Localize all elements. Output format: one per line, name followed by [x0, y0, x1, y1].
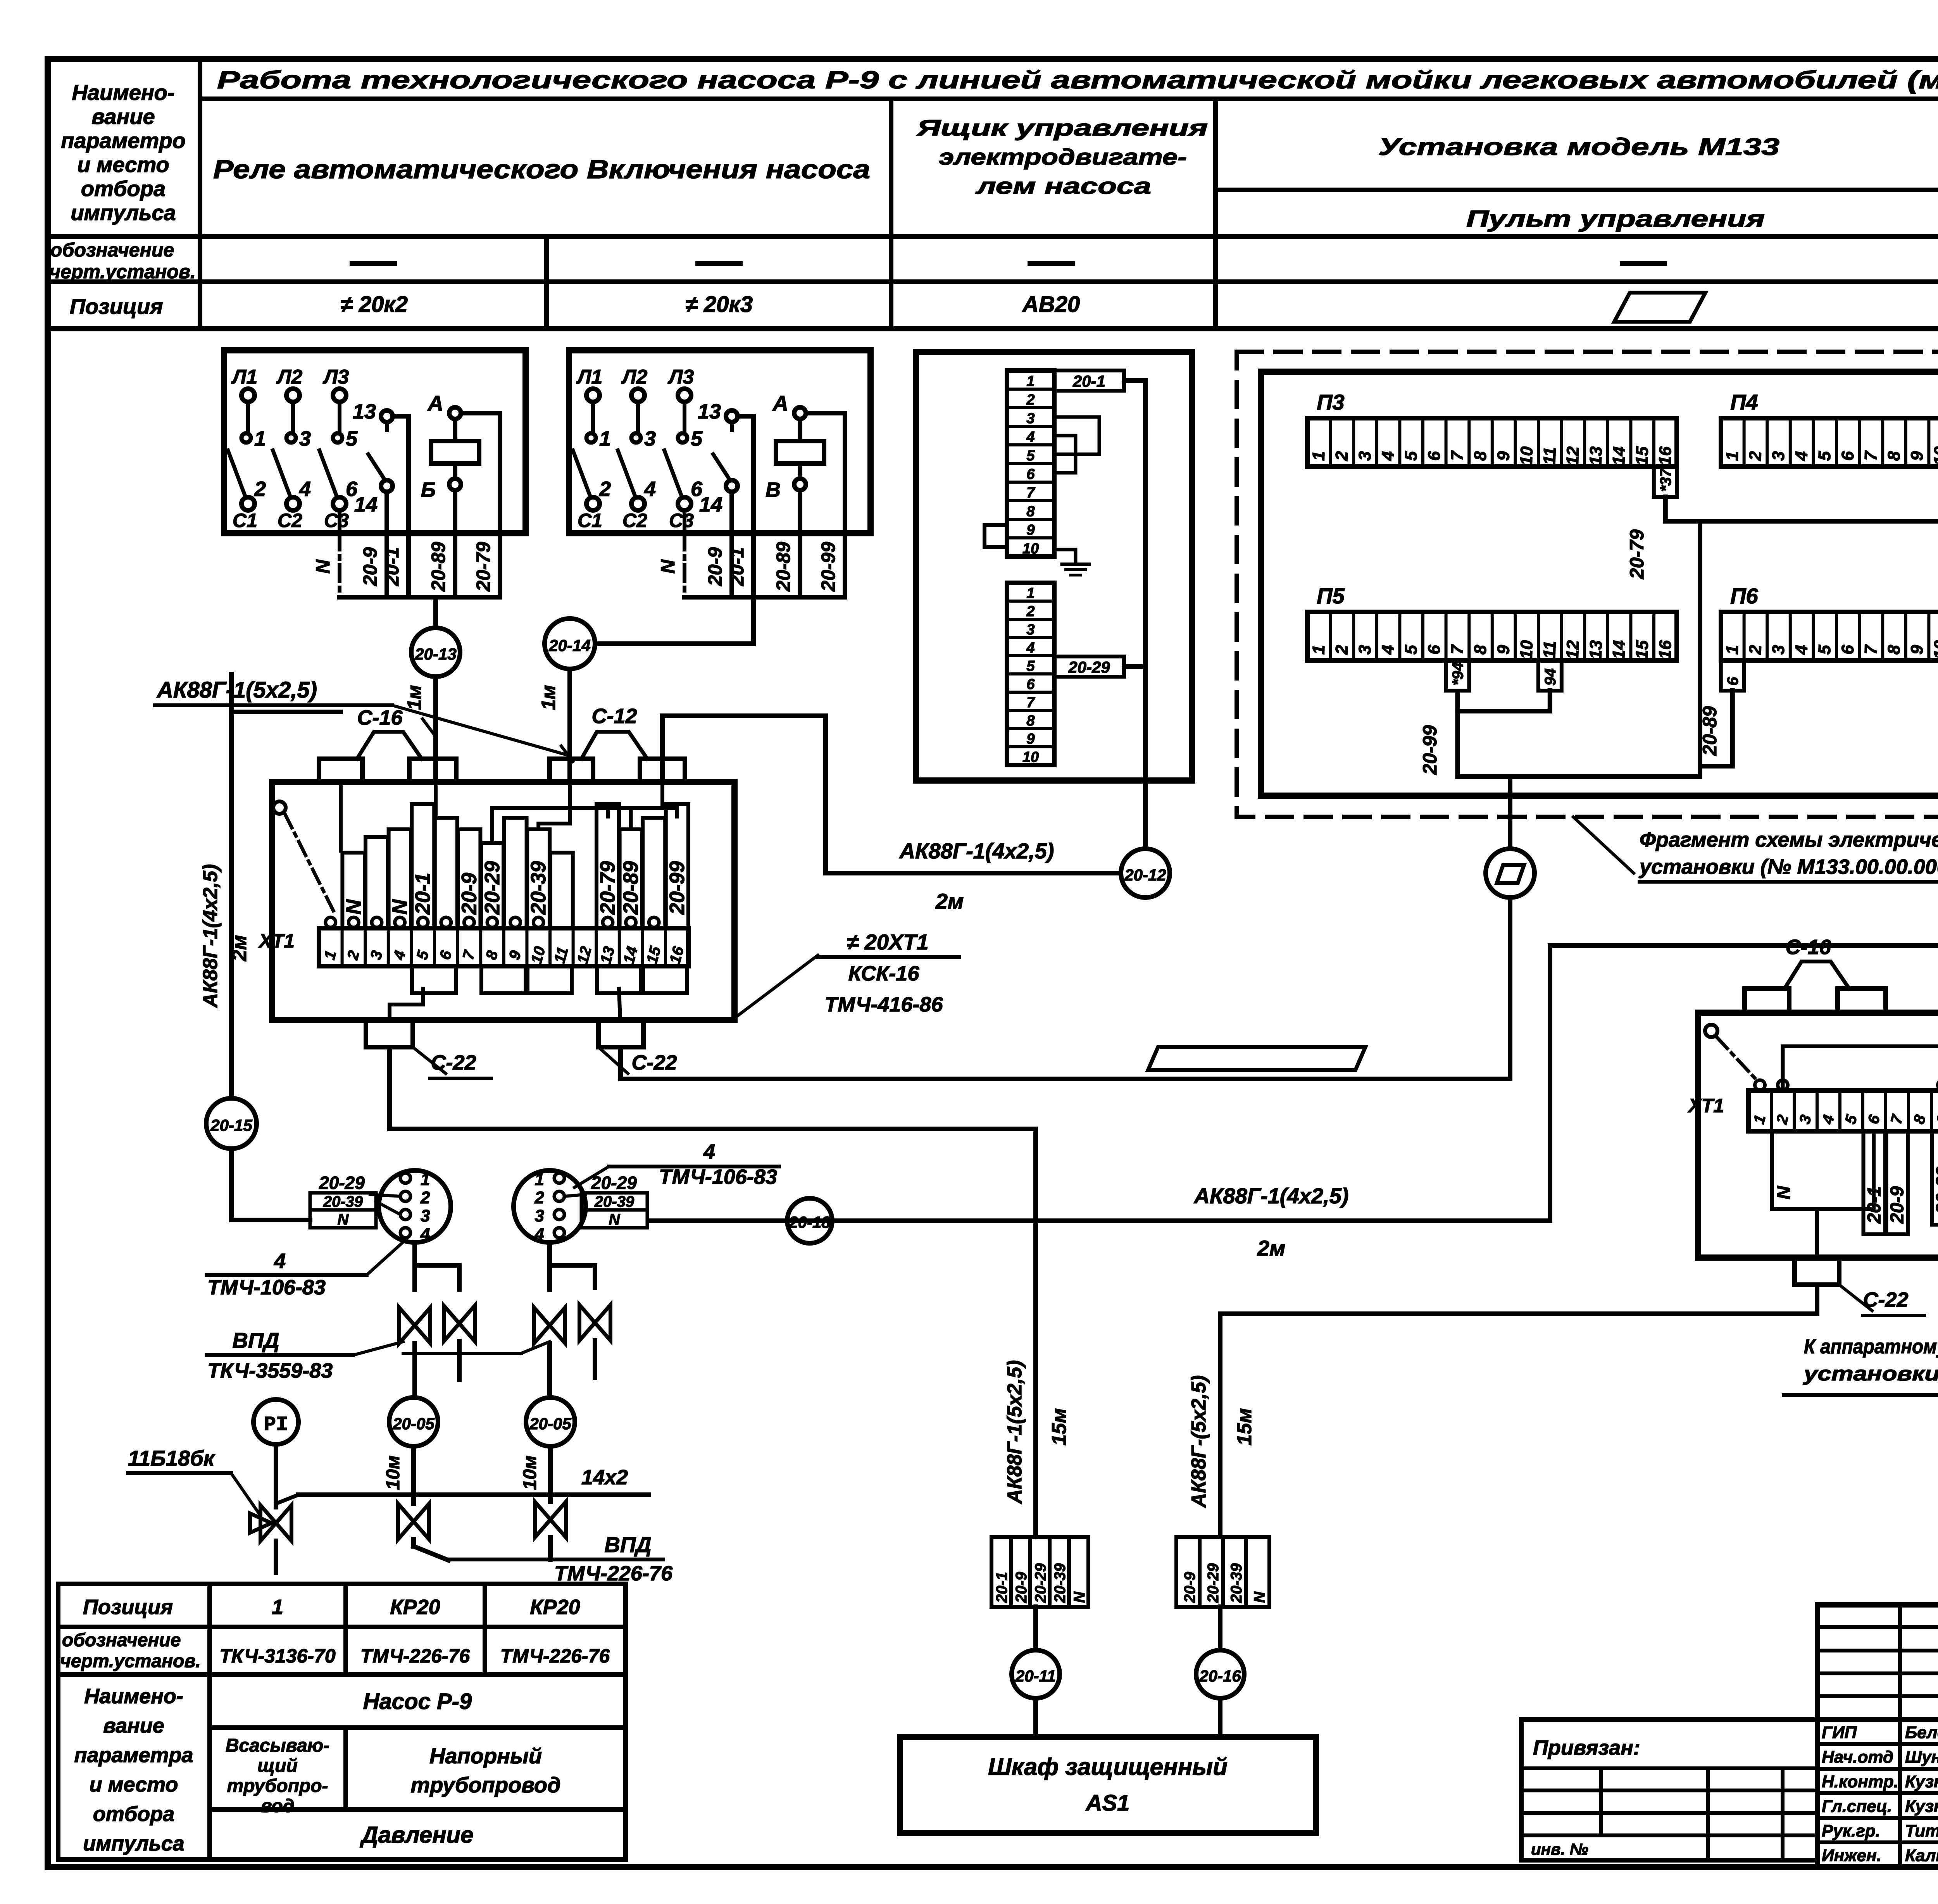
- wire 20-99 P5 jumper: [1457, 690, 1550, 711]
- svg-text:4: 4: [644, 477, 656, 501]
- svg-text:14: 14: [354, 493, 378, 516]
- svg-text:1: 1: [272, 1596, 283, 1619]
- svg-text:Ящик управления: Ящик управления: [916, 115, 1208, 141]
- svg-text:8: 8: [483, 948, 501, 961]
- svg-text:6: 6: [1724, 677, 1741, 686]
- svg-text:9: 9: [506, 948, 524, 961]
- svg-text:1: 1: [321, 949, 340, 961]
- svg-text:20-18: 20-18: [788, 1213, 831, 1231]
- svg-text:N: N: [312, 559, 334, 574]
- wire N dash-dot: [338, 510, 341, 533]
- svg-text:Шунский: Шунский: [1905, 1748, 1938, 1767]
- wire AK88G-1(4x2,5) to 20-15: [229, 674, 234, 1098]
- svg-text:20-9: 20-9: [457, 873, 481, 915]
- svg-text:11: 11: [1540, 447, 1560, 465]
- svg-text:5: 5: [1026, 448, 1035, 464]
- svg-text:9: 9: [1907, 451, 1927, 461]
- title block columns: [1898, 1605, 1902, 1867]
- svg-text:PI: PI: [264, 1413, 288, 1436]
- lower 10-terminal strip: [1007, 583, 1054, 765]
- svg-text:16: 16: [1655, 640, 1675, 660]
- svg-text:А: А: [772, 391, 788, 415]
- svg-text:3: 3: [1769, 644, 1788, 655]
- svg-text:2: 2: [1332, 451, 1352, 462]
- svg-text:20-1: 20-1: [1072, 372, 1105, 390]
- jumper 4-6: [1054, 436, 1076, 473]
- svg-text:П6: П6: [1730, 584, 1758, 608]
- svg-text:9: 9: [1907, 644, 1927, 655]
- tab *94 under П5.7: [1446, 660, 1469, 691]
- svg-text:АК88Г-1(5х2,5): АК88Г-1(5х2,5): [156, 677, 317, 703]
- svg-text:параметра: параметра: [74, 1744, 193, 1767]
- svg-text:С2: С2: [622, 510, 647, 531]
- svg-text:ГИП: ГИП: [1822, 1723, 1857, 1742]
- svg-text:N: N: [342, 899, 365, 915]
- harness wires XT1 left: [339, 782, 343, 851]
- svg-text:3: 3: [1026, 410, 1035, 427]
- tab *37 under П3.16: [1654, 467, 1677, 497]
- label #20XT1 KSK-16 TM4-416-86 left: [735, 955, 818, 1018]
- svg-text:20-39: 20-39: [594, 1193, 635, 1210]
- svg-text:20-39: 20-39: [1052, 1563, 1069, 1603]
- svg-text:7: 7: [1861, 644, 1881, 655]
- svg-text:3: 3: [535, 1206, 544, 1225]
- left tab 9-10: [985, 525, 1007, 547]
- svg-text:13: 13: [353, 400, 376, 423]
- svg-text:15м: 15м: [1233, 1408, 1256, 1446]
- svg-text:20-79: 20-79: [596, 861, 619, 915]
- svg-text:С-22: С-22: [631, 1051, 677, 1074]
- svg-text:Л2: Л2: [621, 366, 648, 388]
- svg-text:7: 7: [1861, 450, 1881, 461]
- svg-text:1: 1: [1750, 1113, 1769, 1126]
- svg-text:7: 7: [1026, 694, 1035, 711]
- svg-text:вание: вание: [91, 104, 155, 129]
- svg-text:Шкаф защищенный: Шкаф защищенный: [988, 1754, 1228, 1780]
- svg-text:П4: П4: [1730, 390, 1758, 414]
- svg-text:20-15: 20-15: [210, 1116, 252, 1134]
- tab 94 under П5.11: [1538, 660, 1562, 691]
- svg-text:5: 5: [414, 948, 432, 961]
- svg-text:черт.установ.: черт.установ.: [60, 1651, 201, 1671]
- XT1 strip right: [1748, 1091, 1938, 1131]
- svg-text:20-89: 20-89: [428, 542, 449, 592]
- svg-text:1: 1: [1309, 644, 1328, 655]
- svg-text:20-39: 20-39: [323, 1193, 363, 1210]
- leader line to cables: [392, 705, 570, 756]
- svg-text:20-12: 20-12: [1124, 866, 1166, 884]
- harness label columns XT1 right: [1772, 1131, 1874, 1209]
- svg-text:5: 5: [1842, 1113, 1860, 1126]
- svg-text:КР20: КР20: [390, 1596, 440, 1619]
- svg-text:20-1: 20-1: [381, 547, 403, 586]
- svg-text:5: 5: [1815, 644, 1835, 655]
- wire 20-79 P3.16 to P4.14: [1666, 497, 1938, 521]
- svg-text:20-99: 20-99: [666, 861, 689, 915]
- svg-text:20-1: 20-1: [726, 547, 748, 586]
- svg-text:4: 4: [390, 949, 409, 962]
- svg-text:12: 12: [574, 944, 595, 965]
- riser to 20-12: [1143, 381, 1148, 849]
- svg-text:Позиция: Позиция: [83, 1596, 173, 1619]
- svg-text:8: 8: [1471, 644, 1490, 655]
- svg-text:трубопровод: трубопровод: [410, 1773, 560, 1797]
- svg-text:Инжен.: Инжен.: [1822, 1846, 1881, 1865]
- wire C22-left to AS1 riser: [390, 1047, 1036, 1129]
- svg-text:10: 10: [1517, 446, 1536, 466]
- svg-text:10м: 10м: [520, 1456, 540, 1490]
- dashed fragment box: [1237, 352, 1938, 817]
- cable right to AS1: [1218, 1314, 1222, 1537]
- svg-text:1: 1: [254, 427, 266, 450]
- svg-text:4: 4: [420, 1225, 430, 1244]
- svg-text:13: 13: [597, 944, 618, 965]
- marker stack left: [991, 1537, 1011, 1607]
- svg-text:АК88Г-(5х2,5): АК88Г-(5х2,5): [1188, 1375, 1210, 1508]
- wire 20-14 to XT1 C-12: [567, 669, 572, 782]
- svg-text:4: 4: [274, 1249, 286, 1273]
- wire 20-15 down to connector: [231, 1149, 310, 1220]
- svg-text:20-05: 20-05: [529, 1415, 571, 1433]
- wire 20-89 P6.1: [1700, 690, 1733, 766]
- svg-text:Наимено-: Наимено-: [84, 1685, 183, 1708]
- svg-text:4: 4: [299, 477, 311, 501]
- top tabs C-12: [550, 759, 593, 782]
- svg-text:Напорный: Напорный: [429, 1744, 542, 1768]
- title block frame: [1817, 1602, 1938, 1608]
- svg-text:N: N: [1774, 1185, 1794, 1199]
- impulse line 14x2: [274, 1444, 278, 1507]
- svg-text:1: 1: [535, 1170, 544, 1189]
- svg-text:10м: 10м: [383, 1456, 403, 1490]
- cabinet AS1: [900, 1737, 1316, 1833]
- svg-text:20-9: 20-9: [1181, 1571, 1198, 1603]
- svg-text:обозначение: обозначение: [62, 1630, 181, 1651]
- svg-text:7: 7: [460, 948, 479, 962]
- svg-text:3: 3: [1355, 451, 1375, 461]
- svg-text:3: 3: [367, 949, 386, 961]
- svg-text:П5: П5: [1317, 584, 1345, 608]
- svg-text:3: 3: [421, 1206, 430, 1225]
- svg-text:6: 6: [1424, 451, 1444, 461]
- cable left to AS1: [1033, 1129, 1038, 1537]
- disconnect circle right: [1705, 1025, 1717, 1037]
- svg-text:ТКЧ-3559-83: ТКЧ-3559-83: [207, 1359, 333, 1382]
- svg-text:Титов: Титов: [1905, 1821, 1938, 1840]
- svg-text:20-89: 20-89: [772, 542, 794, 592]
- svg-text:установки (№ М133.00.00.000ЭЧ: установки (№ М133.00.00.000ЭЧ): [1638, 855, 1938, 879]
- jumper 3-5: [1054, 417, 1099, 454]
- svg-text:С3: С3: [324, 510, 349, 531]
- svg-text:20-29: 20-29: [1068, 658, 1110, 676]
- svg-text:9: 9: [1026, 522, 1035, 538]
- svg-text:2: 2: [1332, 644, 1352, 655]
- svg-text:2: 2: [1026, 603, 1035, 620]
- svg-text:С-16: С-16: [357, 706, 403, 729]
- svg-text:10: 10: [1022, 749, 1039, 765]
- svg-text:6: 6: [436, 948, 455, 961]
- terminal circles: [326, 917, 336, 927]
- svg-text:6: 6: [1026, 676, 1035, 693]
- svg-text:4: 4: [1026, 429, 1035, 445]
- cable marker 20-05 left: [389, 1397, 438, 1446]
- svg-text:94: 94: [1542, 669, 1559, 686]
- svg-text:С2: С2: [278, 510, 302, 531]
- svg-text:10: 10: [1022, 541, 1039, 557]
- svg-text:1: 1: [1026, 373, 1035, 389]
- svg-text:Давление: Давление: [359, 1822, 473, 1848]
- svg-text:отбора: отбора: [81, 176, 166, 201]
- svg-text:2: 2: [1746, 644, 1765, 655]
- svg-text:вание: вание: [103, 1714, 164, 1737]
- svg-text:Калмыков: Калмыков: [1905, 1846, 1938, 1865]
- svg-text:9: 9: [1026, 731, 1035, 747]
- svg-text:15: 15: [643, 944, 664, 966]
- signature rows: [1817, 1742, 1938, 1746]
- bottom tab C-22 right-box-left: [1795, 1258, 1839, 1285]
- harness label columns XT1 left: [342, 853, 365, 928]
- svg-text:ТМЧ-106-83: ТМЧ-106-83: [659, 1165, 777, 1189]
- svg-text:16: 16: [666, 944, 687, 966]
- svg-text:2: 2: [1773, 1113, 1792, 1126]
- svg-text:С-12: С-12: [591, 705, 637, 728]
- right XT1 bottom stubs: [1815, 1209, 1819, 1258]
- wire drop to 20-13: [433, 597, 438, 628]
- wires to riser: [1124, 378, 1145, 383]
- svg-text:11: 11: [1540, 641, 1560, 659]
- svg-text:электродвигате-: электродвигате-: [939, 145, 1187, 170]
- connector left 4-pin: [379, 1170, 451, 1242]
- svg-text:2м: 2м: [1257, 1236, 1286, 1260]
- svg-text:ТКЧ-3136-70: ТКЧ-3136-70: [219, 1645, 336, 1667]
- svg-text:Фрагмент схемы электрической с: Фрагмент схемы электрической соединений: [1640, 828, 1938, 851]
- svg-text:20-29: 20-29: [481, 861, 504, 915]
- terminal strip box outer: [916, 352, 1192, 781]
- svg-text:20-9: 20-9: [704, 547, 726, 586]
- valve pair under right connector: [550, 1242, 595, 1287]
- svg-text:N: N: [657, 559, 679, 574]
- svg-text:N: N: [609, 1211, 621, 1228]
- svg-text:20-16: 20-16: [1199, 1667, 1241, 1685]
- wire collector to exit: [1457, 774, 1700, 779]
- svg-text:AS1: AS1: [1085, 1790, 1130, 1816]
- svg-text:3: 3: [1026, 622, 1035, 638]
- svg-text:3: 3: [1355, 644, 1375, 655]
- svg-text:20-1: 20-1: [411, 873, 434, 915]
- svg-text:5: 5: [1402, 451, 1421, 461]
- svg-text:АК88Г-1(4х2,5): АК88Г-1(4х2,5): [1193, 1184, 1349, 1208]
- svg-text:2: 2: [1026, 392, 1035, 408]
- svg-text:ТМЧ-226-76: ТМЧ-226-76: [500, 1645, 610, 1667]
- svg-text:8: 8: [1026, 713, 1035, 729]
- svg-text:N: N: [338, 1211, 349, 1228]
- disconnect circle and dash-dot: [273, 801, 286, 814]
- svg-text:С1: С1: [233, 510, 257, 531]
- bottom tab stubs: [390, 989, 423, 1020]
- svg-text:5: 5: [346, 427, 358, 450]
- svg-text:7: 7: [1888, 1113, 1907, 1126]
- svg-text:Насос Р-9: Насос Р-9: [363, 1689, 472, 1714]
- svg-text:КСК-16: КСК-16: [848, 962, 920, 985]
- dash marks oboznachenie row: [352, 261, 395, 266]
- svg-text:≠ 20ХТ1: ≠ 20ХТ1: [847, 930, 928, 954]
- svg-text:20-39: 20-39: [527, 861, 550, 915]
- svg-text:2м: 2м: [935, 889, 964, 913]
- header table lines: [198, 59, 202, 329]
- position parallelogram middle: [1148, 1047, 1366, 1070]
- svg-text:2: 2: [535, 1188, 545, 1207]
- svg-text:N: N: [388, 899, 412, 915]
- relay block box: [569, 350, 871, 533]
- svg-text:7: 7: [1448, 644, 1467, 655]
- svg-text:Реле автоматического Включени: Реле автоматического Включения насоса: [213, 155, 870, 184]
- cable junction circle: [1486, 849, 1535, 898]
- svg-text:1: 1: [1722, 451, 1742, 461]
- svg-text:2: 2: [420, 1188, 430, 1207]
- top tabs C-16: [319, 759, 362, 782]
- svg-text:щий: щий: [257, 1756, 298, 1776]
- instrument PI: [253, 1399, 298, 1444]
- svg-text:4: 4: [1792, 451, 1811, 461]
- svg-text:Работа технологического насо: Работа технологического насоса Р-9 с лин…: [217, 66, 1938, 94]
- wire 20-18: [650, 1218, 1550, 1223]
- svg-text:АК88Г-1(4х2,5): АК88Г-1(4х2,5): [199, 864, 222, 1008]
- svg-text:20-29: 20-29: [319, 1173, 365, 1193]
- svg-text:16: 16: [1655, 446, 1675, 466]
- svg-text:П3: П3: [1317, 390, 1344, 414]
- svg-text:В: В: [766, 478, 781, 501]
- svg-text:Всасываю-: Всасываю-: [226, 1735, 329, 1756]
- svg-text:10: 10: [1517, 640, 1536, 660]
- svg-text:20-99: 20-99: [1419, 725, 1441, 775]
- svg-text:20-29: 20-29: [1032, 1563, 1049, 1603]
- svg-text:установки ( №: установки ( №: [1802, 1363, 1938, 1385]
- cable AK88G-1(4x2,5) 2m to 20-12: [826, 716, 1121, 873]
- svg-text:20-1: 20-1: [1864, 1186, 1885, 1224]
- wire 20-18 riser to right XT1: [1550, 946, 1938, 1221]
- svg-text:Л1: Л1: [231, 366, 258, 388]
- svg-text:Н.контр.: Н.контр.: [1822, 1772, 1898, 1791]
- cable marker 20-13: [411, 628, 460, 677]
- svg-text:трубопро-: трубопро-: [227, 1776, 328, 1796]
- bottom tab C-22 left: [366, 1020, 413, 1047]
- terminal box XT1 right: [1698, 1013, 1938, 1258]
- svg-text:и место: и место: [90, 1773, 178, 1796]
- svg-text:14: 14: [620, 944, 641, 965]
- svg-text:11Б18бк: 11Б18бк: [128, 1446, 216, 1470]
- svg-text:10: 10: [1930, 446, 1938, 466]
- svg-text:АК88Г-1(4х2,5): АК88Г-1(4х2,5): [899, 839, 1054, 863]
- svg-text:Л3: Л3: [322, 366, 349, 388]
- svg-text:8: 8: [1026, 503, 1035, 520]
- svg-text:Нач.отд: Нач.отд: [1822, 1748, 1893, 1767]
- pozicija parallelogram mark: [1614, 293, 1705, 322]
- svg-text:20-39: 20-39: [1228, 1563, 1245, 1603]
- svg-text:5: 5: [1402, 644, 1421, 655]
- svg-text:КР20: КР20: [530, 1596, 580, 1619]
- svg-text:2: 2: [254, 477, 266, 501]
- svg-text:вод: вод: [261, 1796, 295, 1816]
- cable marker 20-05 right: [526, 1397, 575, 1446]
- svg-text:9: 9: [1933, 1113, 1938, 1126]
- cable marker 20-18: [787, 1198, 832, 1243]
- privjazan table: [1521, 1720, 1817, 1860]
- svg-text:1: 1: [1722, 644, 1742, 655]
- svg-text:7: 7: [1026, 485, 1035, 501]
- svg-text:13: 13: [698, 400, 721, 423]
- svg-text:15: 15: [1632, 640, 1652, 660]
- label box 20-29: [1054, 656, 1124, 677]
- svg-text:ХТ1: ХТ1: [1687, 1095, 1724, 1117]
- wire junction down: [1508, 898, 1512, 1079]
- svg-text:2м: 2м: [228, 935, 251, 961]
- svg-text:20-29: 20-29: [591, 1173, 637, 1193]
- title block upper rows: [1817, 1625, 1938, 1629]
- harness wires right: [1783, 1013, 1938, 1091]
- svg-text:Установка модель М133: Установка модель М133: [1378, 134, 1779, 160]
- svg-text:Белоус: Белоус: [1905, 1723, 1938, 1742]
- svg-text:АК88Г-1(5х2,5): АК88Г-1(5х2,5): [1003, 1360, 1026, 1504]
- terminal circles right: [1755, 1080, 1765, 1090]
- svg-text:2: 2: [344, 949, 363, 962]
- svg-text:А: А: [427, 391, 443, 415]
- svg-text:ВПД: ВПД: [604, 1532, 651, 1557]
- svg-text:4: 4: [1378, 451, 1398, 461]
- svg-text:Рук.гр.: Рук.гр.: [1822, 1821, 1880, 1840]
- svg-text:≠ 20к3: ≠ 20к3: [685, 292, 753, 317]
- svg-text:импульса: импульса: [71, 200, 176, 225]
- svg-text:10: 10: [1930, 640, 1938, 660]
- svg-text:14х2: 14х2: [581, 1466, 628, 1489]
- svg-text:1: 1: [1026, 585, 1035, 601]
- svg-text:1: 1: [421, 1170, 430, 1189]
- bottom tab C-22 right: [598, 1020, 643, 1047]
- svg-text:14: 14: [1609, 446, 1629, 466]
- svg-text:4: 4: [1378, 644, 1398, 655]
- wire C22-right to fragment riser: [621, 1047, 1510, 1079]
- svg-text:6: 6: [1424, 644, 1444, 655]
- svg-text:20-89: 20-89: [1699, 706, 1721, 756]
- wire bracket under relay block: [685, 595, 845, 600]
- svg-text:отбора: отбора: [93, 1802, 174, 1826]
- wire bracket under relay block: [340, 595, 500, 600]
- svg-text:4: 4: [703, 1140, 715, 1163]
- svg-text:20-99: 20-99: [817, 542, 839, 592]
- svg-text:Кузнецов: Кузнецов: [1905, 1797, 1938, 1816]
- svg-text:2: 2: [599, 477, 611, 501]
- cable marker 20-16: [1196, 1650, 1244, 1698]
- svg-text:Пульт управления: Пульт управления: [1466, 206, 1765, 232]
- bottom valve left 20-05: [398, 1504, 429, 1539]
- svg-text:13: 13: [1586, 640, 1606, 660]
- svg-text:3: 3: [1796, 1113, 1815, 1126]
- svg-text:7: 7: [1448, 450, 1467, 461]
- svg-text:4: 4: [1792, 644, 1811, 655]
- svg-text:20-11: 20-11: [1015, 1667, 1056, 1685]
- terminal box XT1 left: [272, 782, 735, 1020]
- svg-text:ТМЧ-416-86: ТМЧ-416-86: [825, 993, 943, 1016]
- valve pair under left connector: [415, 1242, 459, 1289]
- svg-text:8: 8: [1885, 644, 1904, 655]
- svg-text:20-9: 20-9: [1013, 1571, 1030, 1603]
- wire drop to 20-14: [595, 597, 753, 644]
- svg-text:N: N: [1071, 1591, 1088, 1603]
- fragment inner box: [1261, 372, 1938, 796]
- svg-text:Привязан:: Привязан:: [1533, 1736, 1640, 1759]
- svg-text:лем насоса: лем насоса: [975, 174, 1151, 199]
- bottom table lines: [58, 1582, 626, 1586]
- svg-text:Кузнецов: Кузнецов: [1905, 1772, 1938, 1791]
